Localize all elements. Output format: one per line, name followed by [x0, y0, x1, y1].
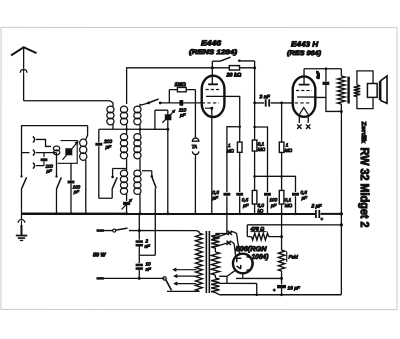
- wire S2 to C200: [99, 197, 112, 199]
- coil antenna coupling: [53, 146, 59, 155]
- transformer T1 primary: [338, 76, 346, 104]
- svg-text:+: +: [320, 217, 323, 222]
- wire antenna down: [23, 74, 25, 100]
- tube E446 top cap plate: [208, 83, 218, 85]
- speaker box: [367, 84, 377, 98]
- capacitor 110 pF: [179, 100, 183, 106]
- wire anode E443H: [315, 96, 326, 98]
- tube E443H filament: [299, 108, 308, 115]
- ground lead-through: [18, 219, 25, 225]
- label 50 W: [93, 252, 107, 258]
- terminal mains 2: [96, 277, 104, 280]
- wire grid top E443H: [304, 68, 341, 70]
- resistor 20 kOhm: [229, 66, 239, 70]
- wire col D: [253, 126, 267, 192]
- svg-text:TA: TA: [192, 144, 198, 149]
- wire F to bus: [294, 196, 297, 215]
- svg-text:10: 10: [145, 261, 151, 266]
- svg-text:RW 32 Midget 2: RW 32 Midget 2: [358, 148, 372, 228]
- svg-text:pF: pF: [104, 145, 112, 151]
- tube 506 envelope: [233, 254, 253, 274]
- label 1064: [251, 254, 269, 261]
- wire C200 down: [98, 146, 100, 198]
- capacitor 0.5uF F: [292, 193, 299, 196]
- svg-text:0,5: 0,5: [212, 190, 219, 195]
- capacitor 100 pF in: [41, 153, 48, 166]
- wire sec top tap: [215, 214, 227, 234]
- wire R20k right: [240, 67, 255, 69]
- label 0.5uF F: [300, 190, 308, 200]
- wire S3 below bus: [154, 214, 156, 256]
- wire coil tall to bus: [84, 160, 87, 215]
- coil field winding: [278, 250, 284, 271]
- wire field bottom: [280, 271, 283, 284]
- wire jack A1: [36, 139, 51, 146]
- transformer T2 secondary mid: [211, 252, 219, 275]
- wire mains top: [139, 231, 199, 233]
- label 475 Ohm: [249, 227, 266, 233]
- coil antenna tall: [80, 139, 87, 160]
- svg-text:MΩ: MΩ: [227, 148, 235, 153]
- wire jack A3: [36, 165, 44, 167]
- jack A1: [33, 137, 35, 143]
- ground symbol: [16, 236, 27, 241]
- wire B to bus: [238, 196, 241, 215]
- heater marks E443H: [297, 124, 310, 128]
- svg-text:5,0: 5,0: [257, 203, 264, 208]
- svg-text:6nF: 6nF: [316, 71, 321, 79]
- tap arrow 2: [174, 275, 196, 278]
- label 100 pF in: [45, 164, 53, 174]
- label 110 pF: [179, 107, 187, 117]
- svg-text:0,5: 0,5: [300, 190, 307, 195]
- wire top bus corner: [127, 68, 213, 104]
- wire jack A2: [36, 152, 57, 154]
- resistor 0.1 MOhm E: [279, 190, 284, 204]
- switch S3: [142, 171, 156, 214]
- coil L4 osc: [120, 134, 127, 159]
- label 0.1 MOhm E: [285, 197, 293, 208]
- label 0.5uF B: [242, 197, 250, 208]
- node B+ bus: [340, 212, 343, 215]
- svg-text:MΩ: MΩ: [258, 147, 266, 152]
- ground stem: [20, 225, 22, 235]
- coil L1 primary: [107, 106, 114, 129]
- wire C200 top: [98, 129, 100, 142]
- resistor 475 Ohm: [247, 233, 281, 240]
- wire L2 mid: [126, 124, 128, 134]
- selector lever: [166, 280, 172, 291]
- wire L5 mid: [139, 158, 141, 170]
- wire L7 down: [138, 194, 141, 215]
- tube E446 envelope: [202, 76, 225, 117]
- svg-text:100: 100: [269, 197, 277, 202]
- label 0.5uF A: [212, 190, 219, 200]
- wire bottom row join: [99, 128, 168, 131]
- wire varcap to bus: [166, 120, 169, 215]
- svg-text:(RENS 1284): (RENS 1284): [189, 49, 237, 56]
- svg-text:µF: µF: [301, 195, 308, 200]
- coil L2 secondary: [120, 106, 127, 125]
- svg-text:0,5: 0,5: [242, 197, 249, 202]
- tube E446 grid cap lead: [211, 68, 213, 84]
- label 10 nF: [145, 261, 152, 271]
- label 0.1 MOhm C: [258, 142, 266, 152]
- transformer T1 core: [347, 77, 349, 104]
- node grid cap E446: [211, 66, 214, 69]
- capacitor 16 uF: [273, 285, 286, 293]
- svg-text:1MΩ: 1MΩ: [175, 82, 186, 88]
- terminal TA top: [192, 138, 198, 141]
- transformer T2 secondary heater: [211, 278, 219, 293]
- transformer T2 secondary HT: [211, 234, 219, 249]
- wire 6nF branch: [325, 69, 327, 82]
- jack A2: [33, 150, 35, 156]
- wire mains 2: [104, 277, 165, 279]
- tube E443H top cap plate: [299, 84, 310, 86]
- tube E446 grid entry dash: [202, 102, 219, 104]
- label 200 pF: [103, 139, 112, 151]
- wire varcap col bus: [70, 184, 73, 215]
- label 20 kOhm: [226, 73, 243, 79]
- variable capacitor antenna: [63, 142, 78, 160]
- capacitor 100 pF D: [264, 193, 271, 196]
- tap arrow 1: [173, 268, 196, 271]
- svg-text:MΩ: MΩ: [285, 148, 293, 153]
- wire 16uF to bus2: [281, 288, 283, 294]
- svg-text:pF: pF: [270, 203, 278, 208]
- coil L6: [120, 170, 127, 194]
- switch S2: [111, 168, 126, 198]
- wire TA top: [194, 103, 196, 137]
- label E446: [201, 39, 222, 48]
- label 1 MOhm B: [227, 143, 235, 153]
- svg-text:µF: µF: [243, 203, 250, 208]
- svg-text:0,1: 0,1: [258, 142, 265, 147]
- svg-text:50 W: 50 W: [93, 252, 107, 258]
- tap arrow 3: [174, 282, 196, 285]
- svg-text:1: 1: [228, 143, 231, 148]
- label 506 RGN: [236, 246, 268, 253]
- tube E446 grid dash: [206, 89, 221, 91]
- tube 506 filament arc: [246, 257, 253, 270]
- svg-text:nF: nF: [144, 244, 151, 249]
- label Feld: [287, 252, 298, 263]
- svg-text:200: 200: [103, 139, 112, 145]
- bus chassis right: [321, 213, 342, 215]
- label 5.0 kOhm: [257, 203, 264, 213]
- tube 506 anode 2: [237, 265, 241, 269]
- wire screen stub: [246, 225, 248, 237]
- wire E446 cathode down: [211, 108, 213, 214]
- wire filter column: [138, 214, 140, 240]
- tube E446 cathode: [205, 107, 213, 110]
- wire primary bottom: [167, 290, 199, 292]
- tube E443H grid cap lead: [303, 69, 305, 85]
- coil L3: [134, 106, 141, 125]
- capacitor 100 pF k: [67, 181, 74, 184]
- wire screen feed: [247, 224, 341, 226]
- wire filter bottom: [138, 270, 141, 280]
- label RENS1284: [189, 49, 237, 56]
- svg-text:1064): 1064): [251, 254, 269, 261]
- wire L3 bottom stub: [139, 124, 141, 134]
- wire filament left: [227, 270, 235, 283]
- wire D to bus: [266, 196, 269, 215]
- wire B+ down: [340, 111, 342, 294]
- tube 506 anode 1: [237, 258, 242, 262]
- wire L3 top to switch: [140, 104, 142, 106]
- wire coil tall: [86, 126, 88, 140]
- wire L4 mid: [126, 158, 128, 170]
- svg-text:506(RGN: 506(RGN: [236, 246, 268, 253]
- varcap housing: [58, 141, 78, 164]
- wire sec bottom tap: [215, 293, 219, 295]
- wire B mid: [239, 152, 241, 192]
- tube E443H grid2 dash: [295, 102, 311, 104]
- wire coil A down: [55, 153, 57, 177]
- svg-text:E443 H: E443 H: [291, 40, 319, 49]
- selector pivot: [163, 277, 166, 280]
- svg-text:E446: E446: [201, 39, 222, 48]
- label 16 uF: [287, 286, 300, 292]
- wire 3nF right: [271, 102, 293, 104]
- svg-text:pF: pF: [45, 169, 51, 174]
- capacitor 2 uF: [310, 204, 323, 222]
- node 20k right: [253, 66, 256, 69]
- variable capacitor osc: [162, 110, 175, 123]
- node 475 right: [280, 235, 283, 238]
- wire bus to ground: [20, 214, 22, 220]
- transformer T1 secondary: [354, 85, 361, 97]
- terminal TA bottom: [192, 151, 198, 157]
- capacitor 3 nF: [266, 99, 270, 106]
- svg-text:2: 2: [144, 238, 148, 243]
- resistor 5.0 kOhm: [252, 190, 257, 204]
- wire E to bus: [280, 204, 283, 215]
- tube E443H anode line: [297, 96, 315, 98]
- svg-text:3 nF: 3 nF: [260, 94, 271, 100]
- transformer T1 primary bottom lead: [340, 104, 342, 111]
- wire anode to primary: [326, 97, 343, 113]
- antenna: [11, 47, 37, 68]
- switch S1 band: [142, 99, 162, 105]
- wire E446 anode: [224, 96, 239, 126]
- capacitor 2 nF: [136, 240, 143, 246]
- svg-text:20 kΩ: 20 kΩ: [226, 73, 243, 79]
- node B+ wire2: [340, 223, 343, 226]
- wire col E mid: [280, 152, 283, 190]
- wire varcap col: [70, 163, 72, 180]
- capacitor 10 nF: [136, 264, 143, 270]
- svg-text:0,1: 0,1: [285, 197, 292, 202]
- tube E446 anode line: [206, 95, 224, 97]
- transformer T2 primary: [196, 233, 203, 291]
- wire top to R 20k: [212, 67, 229, 69]
- wire heater tap B: [219, 283, 257, 294]
- wire varcap top: [155, 110, 168, 129]
- tube E443H grid dash: [296, 90, 312, 92]
- svg-text:MΩ: MΩ: [285, 203, 293, 208]
- capacitor 6 nF: [323, 82, 330, 85]
- switch S4 bypass: [212, 57, 254, 68]
- transformer T2 secondary join1: [214, 248, 216, 252]
- switch mains: [104, 228, 139, 232]
- wire col E top: [280, 102, 283, 143]
- terminal mains 1: [96, 229, 104, 232]
- label RES964: [287, 50, 321, 57]
- trimmer padder: [121, 199, 131, 209]
- tube E443H legs: [299, 117, 308, 123]
- wire C to bus: [254, 204, 256, 214]
- label 6 nF: [316, 71, 321, 79]
- label 100 pF D: [269, 197, 277, 208]
- svg-text:pF: pF: [179, 113, 187, 118]
- switch SA: [20, 175, 26, 189]
- wire A to bus: [226, 196, 229, 215]
- speaker horn: [380, 76, 387, 103]
- switch SB: [55, 175, 61, 215]
- wire 3nF left: [255, 102, 265, 104]
- resistor 1 MOhm B: [237, 127, 242, 153]
- svg-text:+: +: [273, 288, 276, 293]
- label E443H: [291, 40, 319, 49]
- capacitor 0.5uF A: [223, 193, 230, 196]
- resistor 1 MOhm E: [279, 142, 284, 152]
- wire L6 down: [126, 194, 128, 201]
- transformer T2 core: [206, 231, 209, 293]
- resistor 1 MOhm grid: [169, 87, 195, 103]
- svg-text:Feld: Feld: [288, 255, 298, 261]
- wire field top: [281, 214, 283, 250]
- wire antenna to coil L1: [24, 101, 113, 107]
- bus bottom: [219, 293, 341, 296]
- antenna lead-through: [20, 69, 27, 74]
- label RW 32 Midget 2: [358, 148, 372, 228]
- svg-text:(RES 964): (RES 964): [287, 50, 321, 57]
- coil L5 osc: [134, 134, 141, 159]
- svg-text:2 µF: 2 µF: [310, 204, 322, 210]
- label Zerdik: [360, 122, 367, 144]
- svg-text:µF: µF: [212, 195, 219, 200]
- wire plate feed 2: [212, 241, 235, 258]
- wire TA to bus: [194, 157, 197, 215]
- node 6nF top: [325, 67, 328, 70]
- coil L7: [134, 170, 141, 194]
- wire heater tap A: [219, 275, 227, 277]
- label 1 MOhm E: [285, 143, 293, 153]
- wire input box top: [21, 126, 87, 177]
- label 100 pF k: [73, 184, 81, 194]
- svg-text:nF: nF: [145, 267, 152, 272]
- tube E443H envelope: [293, 76, 316, 116]
- wire filter mid: [139, 246, 155, 263]
- capacitor 0.5uF B: [236, 193, 243, 196]
- wire filament right: [236, 273, 282, 278]
- wire SA to bus: [20, 189, 22, 214]
- wire padder to bus: [125, 205, 128, 215]
- wire col C mid: [253, 151, 256, 190]
- wire secondary loop: [357, 71, 373, 109]
- svg-text:Zerdik: Zerdik: [360, 122, 367, 144]
- svg-text:16 µF: 16 µF: [287, 286, 300, 292]
- resistor 0.1 MOhm C: [252, 140, 257, 151]
- wire branch A: [227, 125, 241, 192]
- label TA: [192, 144, 198, 149]
- transformer T1 primary top lead: [340, 69, 342, 76]
- wire col C top: [253, 68, 256, 140]
- speaker driver: [379, 81, 382, 100]
- node mains 1: [138, 229, 141, 232]
- bus chassis: [21, 213, 315, 216]
- jack A3: [33, 163, 35, 169]
- svg-text:pF: pF: [73, 189, 79, 194]
- wire grid E446: [160, 102, 202, 104]
- label 1 MOhm grid: [175, 82, 186, 88]
- transformer T2 secondary join2: [214, 275, 216, 278]
- svg-text:1: 1: [286, 143, 289, 148]
- wire screen join: [255, 176, 296, 192]
- wire 6nF bottom: [325, 85, 327, 97]
- capacitor 200 pF: [95, 143, 102, 146]
- label 3 nF: [260, 94, 271, 100]
- wire plate feed 1: [212, 231, 239, 255]
- label 2 nF: [144, 238, 151, 248]
- wire jack A2 stub: [22, 152, 30, 154]
